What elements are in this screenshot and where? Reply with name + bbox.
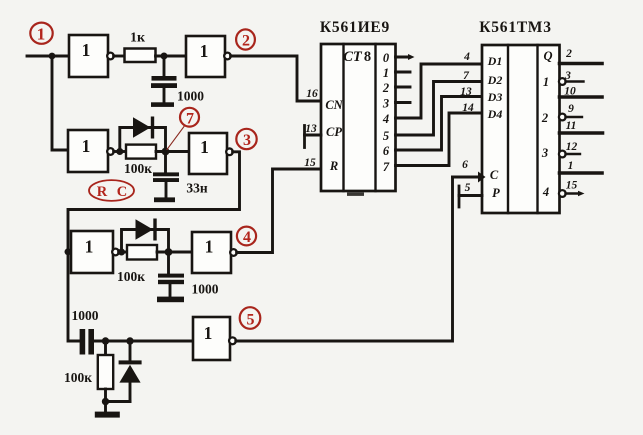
wire C input horizontal (453, 176, 479, 179)
wire ground stem row4 (104, 402, 107, 413)
inverter gate DD1.2 (186, 36, 231, 77)
svg-text:R: R (97, 184, 108, 200)
capacitor 1000 series row4 (80, 329, 94, 355)
wire junction B to gate DD1.4 (156, 150, 189, 153)
node 2 (circled red marker) (236, 29, 255, 49)
svg-text:13: 13 (460, 86, 472, 98)
wire gate DD2.3 output to C input of DD3 trigger (236, 177, 453, 341)
node junction C row4 (102, 337, 109, 344)
counter DD2 function label CT8 (343, 49, 371, 65)
svg-text:15: 15 (566, 180, 578, 192)
node junction D row4 (126, 337, 133, 344)
svg-text:1к: 1к (130, 31, 146, 46)
resistor 100k row2 (126, 145, 156, 159)
svg-text:К561ТМ3: К561ТМ3 (479, 19, 552, 36)
svg-text:D3: D3 (487, 90, 503, 104)
svg-text:5: 5 (465, 182, 471, 194)
svg-text:D1: D1 (487, 54, 503, 68)
svg-text:1: 1 (568, 160, 574, 172)
resistor 100k row3 (127, 245, 157, 260)
svg-text:CN: CN (325, 98, 343, 112)
svg-text:CP: CP (326, 125, 342, 139)
wire input row1 (27, 55, 69, 58)
svg-text:15: 15 (304, 157, 316, 169)
wire junction B row3 to capacitor (167, 252, 170, 274)
svg-text:4: 4 (542, 185, 549, 199)
diode VD2 row3 (136, 219, 157, 241)
wire junction B row3 to gate DD2.2 (157, 251, 192, 254)
counter DD2 body (321, 44, 396, 196)
wire junction to capacitor (163, 56, 166, 79)
inverter gate DD1.3 (68, 130, 114, 172)
inverter gate DD2.2 (192, 232, 237, 273)
wire gate DD2.2 output up to R pin of DD2 counter (237, 169, 321, 253)
node junction A row3 (118, 249, 125, 256)
wire output Q2 pin 10 (560, 95, 603, 99)
svg-text:C: C (117, 184, 127, 200)
wire diode branch row2 (120, 128, 166, 152)
wire output 7 to D4 (396, 113, 483, 166)
svg-text:5: 5 (383, 129, 389, 143)
ground bar row1 (151, 102, 174, 107)
wire gate DD1.3 output to resistor (114, 150, 126, 153)
wire feedback junction into gate DD2.1 (68, 250, 71, 253)
capacitor 1000 row1 (151, 76, 177, 88)
svg-text:2: 2 (541, 111, 548, 125)
node junction B row2 (162, 148, 170, 156)
node 3 (circled red marker) (236, 129, 256, 149)
diode VD1 row2 (133, 117, 154, 139)
ground bar row3 (157, 297, 184, 303)
svg-text:3: 3 (382, 97, 389, 111)
node 5 (circled red marker) (240, 307, 261, 329)
wire from input junction down to gate DD1.2 input (52, 56, 68, 150)
svg-text:3: 3 (541, 146, 548, 160)
wire CP stub with terminator bar (305, 126, 322, 148)
wire capacitor to ground (163, 88, 166, 102)
svg-text:4: 4 (243, 229, 251, 246)
wire junction C down to resistor (104, 341, 107, 355)
capacitor 1000 row3 (158, 274, 184, 285)
ground bar row2 (154, 197, 175, 202)
node junction feedback to gate DD2.1 row3 (65, 248, 72, 255)
wire resistor bottom to ground node (104, 389, 107, 402)
svg-text:1: 1 (205, 237, 214, 257)
svg-text:14: 14 (462, 102, 474, 114)
node 4 (circled red marker) (237, 227, 256, 246)
svg-text:1: 1 (383, 66, 389, 80)
wire output 2 stub (396, 86, 411, 89)
svg-text:1: 1 (85, 237, 94, 257)
wire output Q1 pin 2 (560, 62, 603, 66)
wire capacitor to gate DD2.3 input (94, 340, 193, 343)
node R C (red oval label) (89, 180, 134, 201)
inverter gate DD1.4 (189, 133, 233, 174)
inversion bubble output 4 (559, 190, 566, 197)
svg-text:12: 12 (566, 141, 578, 153)
wire bottom connecting resistor and diode (106, 400, 131, 403)
svg-text:13: 13 (305, 123, 317, 135)
svg-text:33н: 33н (186, 181, 208, 196)
svg-text:1000: 1000 (192, 282, 219, 297)
wire diode bottom to ground node (129, 382, 132, 402)
resistor 100k row4 (vertical) (98, 355, 113, 389)
svg-text:10: 10 (564, 86, 576, 98)
svg-text:Q: Q (543, 49, 552, 63)
svg-text:100к: 100к (64, 370, 92, 385)
svg-text:1000: 1000 (177, 89, 204, 104)
inversion bubble output 3 (559, 151, 566, 158)
red pointer line from node 7 to junction B (167, 127, 184, 150)
node 7 (circled red marker) (180, 108, 199, 128)
svg-text:1: 1 (82, 40, 91, 60)
svg-text:1: 1 (543, 75, 549, 89)
svg-text:1000: 1000 (72, 308, 99, 323)
svg-text:К561ИЕ9: К561ИЕ9 (320, 19, 390, 36)
svg-text:5: 5 (247, 312, 255, 329)
wire output Q2 inverse stub pin 9 (566, 116, 583, 118)
wire output 1 stub (396, 71, 411, 74)
svg-text:100к: 100к (124, 161, 152, 176)
node junction A row2 (116, 148, 123, 155)
svg-text:6: 6 (383, 144, 390, 158)
svg-text:3: 3 (564, 70, 571, 82)
wire capacitor 33n to ground (165, 182, 168, 198)
wire output Q3 inverse stub pin 12 (566, 153, 581, 155)
trigger DD3 body (482, 45, 560, 213)
wire capacitor row3 to ground (169, 284, 172, 297)
diode VD3 row4 (vertical, cathode up) (119, 360, 142, 382)
svg-text:8: 8 (364, 49, 371, 65)
svg-text:2: 2 (242, 33, 250, 50)
wire output 5 to D2 (396, 82, 483, 136)
svg-text:100к: 100к (117, 269, 145, 284)
svg-text:7: 7 (383, 160, 390, 174)
svg-text:D4: D4 (487, 107, 503, 121)
wire output Q1 inverse stub pin 3 (566, 80, 584, 82)
svg-text:7: 7 (186, 111, 194, 128)
svg-text:CT: CT (343, 49, 363, 65)
svg-text:C: C (490, 168, 499, 182)
svg-text:1: 1 (204, 323, 213, 343)
node junction RC row1 (161, 53, 168, 60)
svg-text:1: 1 (200, 41, 209, 61)
svg-text:4: 4 (463, 51, 470, 63)
svg-text:16: 16 (306, 88, 318, 100)
svg-text:11: 11 (566, 120, 577, 132)
wire output Q3 pin 11 (560, 131, 603, 135)
svg-text:1: 1 (200, 137, 209, 157)
svg-text:1: 1 (82, 136, 91, 156)
svg-text:9: 9 (568, 103, 574, 115)
wire gate DD1.2 output to CN pin of DD2 (231, 56, 321, 101)
svg-text:P: P (492, 186, 500, 200)
svg-text:4: 4 (382, 112, 389, 126)
node junction B row3 (165, 248, 173, 256)
wire gate DD2.1 output to resistor (119, 251, 127, 254)
capacitor 33н (153, 172, 179, 182)
svg-text:D2: D2 (487, 73, 503, 87)
wire output 6 to D3 (396, 97, 483, 151)
wire output 0 stub with arrow (396, 54, 415, 60)
wire gate DD1.4 output feedback down-left to row3 and row4 (68, 152, 240, 341)
inversion bubble output 1 (559, 78, 566, 85)
inverter gate DD1.1 (69, 35, 114, 77)
wire resistor to gate DD1.2 with node (156, 55, 187, 58)
wire junction D down to diode (129, 341, 132, 361)
wire output Q4 pin 1 (560, 171, 603, 175)
svg-text:2: 2 (565, 48, 572, 60)
svg-text:1: 1 (37, 25, 46, 44)
inverter gate DD2.3 (193, 317, 236, 360)
node junction row1 input (49, 53, 56, 60)
svg-text:3: 3 (243, 132, 251, 149)
wire junction B to capacitor 33n (164, 152, 167, 174)
inverter gate DD2.1 (71, 231, 119, 273)
wire diode branch row3 (122, 230, 169, 253)
svg-text:0: 0 (383, 51, 390, 65)
node junction ground row4 (102, 398, 109, 405)
dynamic input triangle at C (478, 172, 486, 183)
svg-text:2: 2 (382, 81, 389, 95)
wire P stub with terminator bar (459, 186, 482, 207)
wire output 4 to D1 (396, 64, 483, 118)
svg-text:6: 6 (462, 159, 468, 171)
resistor 1k (125, 49, 156, 63)
wire output Q4 inverse stub pin 15 with arrow (566, 191, 585, 196)
inversion bubble output 2 (559, 114, 566, 121)
node 1 (circled red input marker) (30, 23, 52, 44)
wire output 3 stub (396, 101, 411, 104)
wire gate DD1.1 output to resistor (114, 55, 125, 58)
ground bar row4 (95, 412, 120, 418)
svg-text:R: R (329, 159, 338, 173)
